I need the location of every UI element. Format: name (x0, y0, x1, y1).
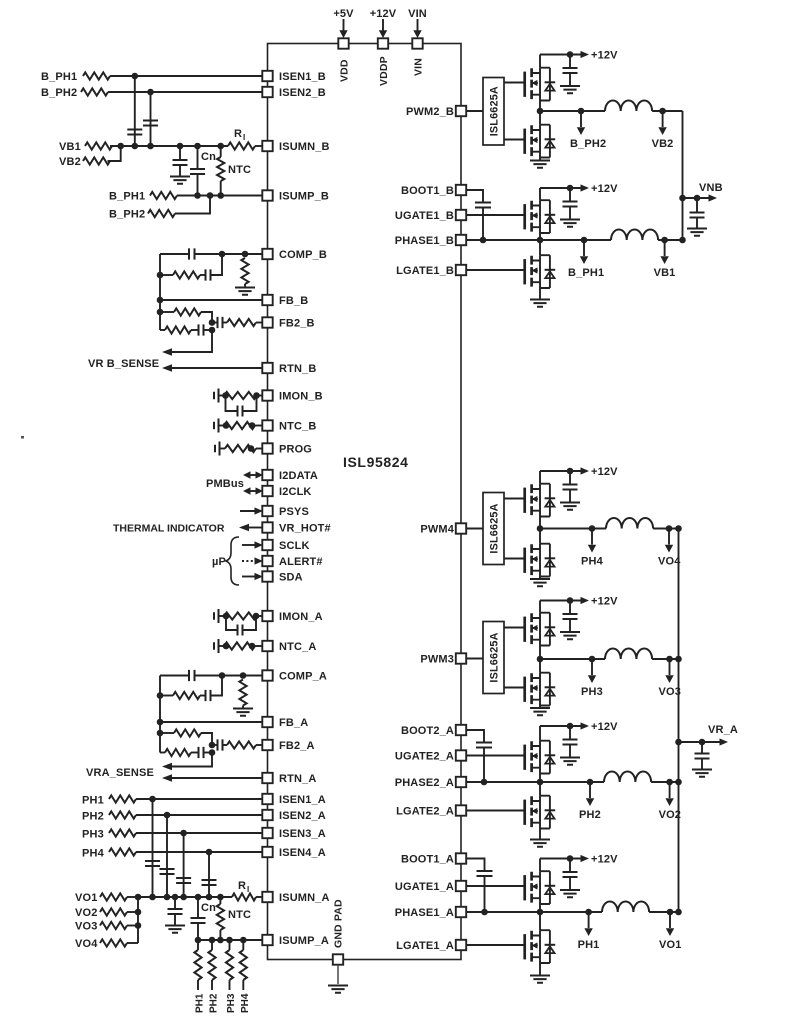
svg-text:B_PH2: B_PH2 (41, 87, 77, 99)
node VO1 tap (659, 909, 681, 951)
svg-text:UGATE2_A: UGATE2_A (395, 751, 454, 763)
svg-text:B_PH1: B_PH1 (109, 191, 145, 203)
ground lower source PWM3 (530, 706, 550, 716)
resistor VO4 (75, 938, 138, 950)
wire PSYS input arrow (240, 507, 263, 514)
node B_PH2 tap (570, 108, 606, 150)
node phase B1A (537, 909, 544, 916)
pin SDA (262, 571, 302, 583)
pin PROG (262, 443, 312, 455)
svg-text:PH3: PH3 (581, 686, 603, 698)
pin VDDP (378, 38, 390, 86)
svg-text:PWM3: PWM3 (420, 654, 454, 666)
capacitor on ISEN1 branch (127, 130, 142, 135)
capacitor PH1 branch (145, 861, 160, 866)
svg-text:PH3: PH3 (226, 993, 237, 1013)
resistor VB2 (59, 146, 121, 168)
pin ISEN1_A (262, 794, 326, 806)
svg-text:IMON_B: IMON_B (279, 391, 323, 403)
transistor Q lower PWM4 (525, 544, 556, 577)
node VR_A rail joints (675, 656, 682, 663)
wire VR_A rail (678, 529, 680, 913)
label uP with brace (212, 537, 239, 585)
wire PH2 branch down (166, 815, 168, 897)
wire VO merge rail (137, 897, 139, 943)
svg-text:VR_A: VR_A (708, 724, 738, 736)
wire upper gate PWM3 (504, 627, 525, 629)
pin PWM2_B (406, 106, 466, 118)
node PH2 tap (579, 779, 601, 821)
wire left rail (A comp) (159, 676, 161, 753)
svg-text:NTC: NTC (228, 909, 251, 921)
node VR_A tap (675, 724, 738, 746)
inductor B2A (604, 772, 651, 783)
wire PWM3 to driver (466, 658, 483, 660)
resistor VB1 (59, 141, 112, 153)
svg-text:RTN_B: RTN_B (279, 363, 316, 375)
svg-text:B_PH1: B_PH1 (41, 71, 77, 83)
pin RTN_B (262, 363, 316, 375)
resistor IMON_A with parallel capacitor (214, 609, 262, 636)
pin I2CLK (262, 486, 311, 498)
wire phase to lower drain PWM3 (539, 659, 541, 673)
pin UGATE1_B (395, 210, 466, 222)
capacitor ISUMN_A to ground (165, 894, 185, 933)
svg-text:R: R (234, 128, 242, 140)
ground lower source PWM2_B (530, 158, 550, 168)
resistor B_PH2 to ISUMP_B (109, 196, 210, 221)
resistor PH1 to ISEN (82, 795, 262, 807)
capacitor COMP_A series (189, 670, 195, 681)
node VIN supply (408, 8, 427, 38)
wire upper gate PWM4 (504, 498, 525, 500)
node junction ISEN1_B (132, 73, 139, 80)
svg-text:B_PH1: B_PH1 (568, 267, 604, 279)
transistor Q upper B1A (525, 871, 556, 904)
svg-text:PH3: PH3 (82, 829, 104, 841)
svg-text:ISL6625A: ISL6625A (489, 86, 501, 136)
svg-text:+12V: +12V (591, 50, 618, 62)
svg-text:RTN_A: RTN_A (279, 773, 316, 785)
wire left rail (B comp) (159, 254, 161, 330)
node phase PWM3 (537, 656, 544, 663)
pin VR_HOT# (262, 522, 330, 534)
wire ISEN2 branch down (150, 92, 152, 146)
resistor + capacitor FB_A lower branch (160, 747, 215, 758)
pin PHASE2_A (395, 777, 466, 789)
wire drain to +12V PWM2_B (539, 55, 541, 68)
resistor bottom PH3 (226, 940, 237, 1013)
capacitor +12V decoupling PWM2_B (560, 55, 580, 94)
svg-text:Cn: Cn (201, 902, 216, 914)
svg-text:LGATE1_B: LGATE1_B (396, 265, 454, 277)
wire UGATE B1A (466, 885, 525, 887)
svg-text:PH1: PH1 (195, 993, 206, 1013)
wire PH1 branch down (152, 799, 154, 897)
pin UGATE2_A (395, 750, 466, 762)
pin LGATE1_A (396, 940, 466, 952)
wire PWM2_B to driver (466, 110, 483, 112)
wire ISEN1 branch down (134, 76, 136, 146)
transistor Q lower B1B (525, 255, 556, 288)
wire ISUMN_B rail (110, 145, 228, 147)
resistor FB2_A upper (157, 729, 212, 745)
resistor VO3 (75, 921, 141, 933)
node VNB tap (679, 182, 722, 202)
svg-text:NTC: NTC (228, 164, 251, 176)
wire I2DATA bidirectional arrow (243, 471, 263, 479)
resistor COMP_B to ground (235, 251, 255, 295)
wire upper source to phase PWM2_B (539, 101, 541, 112)
wire upper source to phase PWM4 (539, 517, 541, 529)
resistor NTC_B (214, 419, 262, 433)
transistor Q lower PWM3 (525, 673, 556, 706)
node B_PH1 tap (568, 237, 604, 279)
svg-text:VNB: VNB (699, 182, 723, 194)
wire phase node PWM2_B (540, 110, 605, 112)
svg-text:VO4: VO4 (75, 938, 98, 950)
pin COMP_B (262, 249, 327, 261)
pin ISUMP_B (262, 190, 329, 202)
capacitor PH3 branch (176, 878, 191, 883)
wire inductor to rail PWM4 (653, 528, 678, 530)
svg-text:PH2: PH2 (82, 811, 104, 823)
ground lower source B2A (530, 829, 550, 847)
wire drain to +12V PWM3 (539, 601, 541, 613)
pin RTN_A (262, 773, 316, 785)
wire drain to +12V B1B (539, 188, 541, 200)
node ISUMP_A junctions (195, 937, 202, 944)
capacitor +12V decoupling PWM4 (560, 471, 580, 510)
wire phase node PWM4 (540, 528, 606, 530)
svg-text:I2DATA: I2DATA (279, 470, 318, 482)
wire PH3 branch down (183, 833, 185, 897)
svg-text:ISEN1_B: ISEN1_B (279, 71, 326, 83)
resistor PH3 to ISEN (82, 829, 262, 841)
wire PH4 branch down (208, 852, 210, 897)
svg-text:I2CLK: I2CLK (279, 486, 312, 498)
node PH3 tap (581, 656, 603, 698)
pin ISUMN_A (262, 892, 329, 904)
pin GND PAD (333, 899, 345, 965)
pin VIN (412, 38, 424, 76)
op-amp U_PWM4 driver ISL6625A (483, 493, 504, 565)
resistor RI to ISUMN_A (232, 880, 262, 901)
pin PSYS (262, 506, 309, 518)
resistor FB2 upper (157, 308, 212, 322)
resistor NTC (A) (217, 894, 251, 940)
resistor B_PH1 to ISEN1_B (41, 71, 262, 83)
svg-text:ISL6625A: ISL6625A (489, 632, 501, 682)
wire VRA_SENSE tap with arrow (162, 753, 212, 771)
svg-text:FB2_A: FB2_A (279, 740, 315, 752)
svg-text:NTC_B: NTC_B (279, 421, 316, 433)
svg-text:+12V: +12V (591, 183, 618, 195)
capacitor +12V decoupling B1A (560, 859, 580, 898)
svg-text:PWM2_B: PWM2_B (406, 106, 454, 118)
op-amp U_PWM2_B driver ISL6625A (483, 78, 504, 146)
transistor Q lower B1A (525, 930, 556, 963)
svg-text:SCLK: SCLK (279, 540, 310, 552)
wire phase to lower drain PWM2_B (539, 111, 541, 125)
svg-text:+12V: +12V (591, 596, 618, 608)
svg-text:Cn: Cn (201, 151, 216, 163)
capacitor on ISEN2 branch (143, 121, 158, 126)
wire drain to +12V PWM4 (539, 471, 541, 484)
pin ISEN2_A (262, 810, 326, 822)
resistor VO2 (75, 907, 141, 919)
wire inductor to rail PWM2_B (652, 110, 682, 112)
svg-text:FB_B: FB_B (279, 295, 308, 307)
svg-text:VR_HOT#: VR_HOT# (279, 523, 331, 535)
svg-text:VB1: VB1 (59, 141, 81, 153)
resistor NTC_A (214, 639, 262, 653)
pin NTC_B (262, 420, 316, 432)
node ISUMN_A junctions (135, 894, 142, 901)
svg-text:COMP_A: COMP_A (279, 671, 327, 683)
resistor IMON_B with parallel capacitor (214, 389, 262, 417)
svg-text:BOOT2_A: BOOT2_A (401, 725, 454, 737)
wire phase to lower drain B2A (539, 782, 541, 796)
pin PHASE1_A (395, 907, 466, 919)
pin ISEN4_A (262, 847, 326, 859)
wire upper source to phase B1A (539, 904, 541, 912)
svg-text:PH4: PH4 (82, 848, 105, 860)
wire upper source to phase B1B (539, 233, 541, 240)
node VB1 tap (654, 237, 676, 279)
capacitor Cn (B) (190, 143, 216, 196)
node +12V PWM2_B (540, 50, 618, 62)
svg-text:PH1: PH1 (82, 795, 104, 807)
svg-text:B_PH2: B_PH2 (570, 138, 606, 150)
capacitor Cn (A) (191, 894, 217, 940)
wire COMP_A row (160, 675, 189, 677)
wire LGATE B1B (466, 269, 525, 271)
svg-text:SDA: SDA (279, 572, 303, 584)
svg-text:PH2: PH2 (579, 809, 601, 821)
ground lower source B1B (530, 288, 550, 307)
capacitor +12V decoupling B1B (560, 188, 580, 227)
capacitor PH2 branch (160, 869, 175, 874)
svg-text:VDD: VDD (339, 59, 351, 82)
wire phase to lower drain B1A (539, 912, 541, 930)
wire VR_HOT# output arrow (239, 524, 262, 532)
svg-text:FB_A: FB_A (279, 717, 308, 729)
transistor Q upper PWM2_B (525, 68, 556, 101)
svg-text:R: R (238, 880, 246, 892)
node phase B1B (537, 237, 544, 244)
svg-text:ISEN4_A: ISEN4_A (279, 847, 326, 859)
wire I2CLK bidirectional arrow (243, 487, 263, 495)
node junction PH3 (180, 830, 187, 837)
wire ISUMN_A rail (138, 896, 232, 898)
node VO3 tap (659, 656, 681, 698)
svg-text:VRA_SENSE: VRA_SENSE (86, 767, 154, 779)
svg-text:µP: µP (212, 556, 226, 568)
capacitor bootstrap B1A (466, 859, 492, 916)
resistor PROG (215, 442, 262, 456)
svg-text:PH4: PH4 (581, 556, 604, 568)
node phase B2A (537, 779, 544, 786)
svg-text:VB2: VB2 (59, 156, 81, 168)
pin BOOT2_A (401, 725, 466, 737)
resistor + capacitor COMP_A lower branch (157, 672, 226, 701)
pin ISUMP_A (262, 935, 329, 947)
node +12V supply (370, 8, 397, 38)
resistor bottom PH2 (208, 940, 219, 1013)
svg-text:B_PH2: B_PH2 (109, 209, 145, 221)
ground lower source B1A (530, 963, 550, 983)
wire RTN_B with arrow (162, 364, 262, 372)
svg-text:PHASE1_A: PHASE1_A (395, 907, 454, 919)
svg-text:PHASE2_A: PHASE2_A (395, 777, 454, 789)
svg-text:UGATE1_A: UGATE1_A (395, 881, 454, 893)
svg-text:UGATE1_B: UGATE1_B (395, 210, 454, 222)
inductor PWM3 (605, 649, 652, 660)
wire SDA input arrow (242, 573, 263, 580)
svg-text:ISEN1_A: ISEN1_A (279, 794, 326, 806)
node VO4 tap (658, 525, 681, 567)
svg-text:THERMAL INDICATOR: THERMAL INDICATOR (113, 523, 225, 535)
transistor Q upper PWM3 (525, 613, 556, 646)
node +5V supply (333, 8, 354, 38)
svg-text:LGATE2_A: LGATE2_A (396, 806, 454, 818)
ground lower source PWM4 (530, 577, 550, 587)
wire LGATE B1A (466, 944, 525, 946)
wire phase to lower drain B1B (539, 240, 541, 255)
wire COMP_B row (160, 253, 189, 255)
node junction PH1 (149, 796, 156, 803)
svg-text:+12V: +12V (370, 8, 397, 20)
pin FB_B (262, 295, 308, 307)
pin ISEN3_A (262, 828, 326, 840)
svg-text:ISEN2_A: ISEN2_A (279, 810, 326, 822)
wire LGATE B2A (466, 810, 525, 812)
pin IMON_B (262, 390, 322, 402)
svg-text:BOOT1_B: BOOT1_B (401, 185, 454, 197)
resistor PH2 to ISEN (82, 811, 262, 823)
node +12V B2A (540, 721, 618, 733)
svg-text:VIN: VIN (408, 8, 427, 20)
svg-text:PH2: PH2 (209, 993, 220, 1013)
pin ISEN2_B (262, 87, 326, 99)
wire FB_B row (157, 297, 263, 304)
pin FB_A (262, 717, 308, 729)
resistor RI to ISUMN_B (228, 128, 262, 150)
wire inductor to rail B1A (649, 911, 678, 913)
svg-text:+12V: +12V (591, 854, 618, 866)
svg-text:VO1: VO1 (75, 892, 97, 904)
wire lower gate PWM4 (504, 558, 525, 560)
inductor B1A (602, 902, 649, 913)
wire VNB rail (682, 111, 684, 240)
resistor B_PH2 to ISEN2_B (41, 87, 262, 99)
inductor PWM2_B (605, 100, 652, 111)
wire PWM4 to driver (466, 528, 483, 530)
svg-text:ISEN2_B: ISEN2_B (279, 87, 326, 99)
svg-text:+12V: +12V (591, 721, 618, 733)
transistor Q upper B1B (525, 200, 556, 233)
node junction PH2 (164, 812, 171, 819)
pin SCLK (262, 540, 309, 552)
node +12V PWM4 (540, 466, 618, 478)
capacitor bootstrap B2A (466, 730, 492, 785)
op-amp U1 ISL95824 controller body (268, 44, 462, 960)
node junction PH4 (206, 849, 213, 856)
wire drain to +12V B1A (539, 859, 541, 872)
node phase PWM4 (537, 525, 544, 532)
pin FB2_A (262, 740, 314, 752)
inductor B1B (611, 230, 658, 241)
wire FB_A row (157, 719, 263, 726)
wire UGATE B1B (466, 214, 525, 216)
svg-text:I: I (247, 885, 249, 894)
pin I2DATA (262, 470, 318, 482)
svg-text:ALERT#: ALERT# (279, 556, 323, 568)
pin NTC_A (262, 641, 316, 653)
resistor + capacitor COMP_B lower branch (157, 251, 226, 281)
transistor Q upper PWM4 (525, 484, 556, 517)
pin VDD (338, 38, 350, 82)
node VB junction (117, 143, 124, 150)
transistor Q upper B2A (525, 741, 556, 774)
pin LGATE2_A (396, 805, 466, 817)
wire SCLK input arrow (242, 541, 263, 548)
wire stray mark (21, 436, 24, 439)
ground below GND PAD (328, 965, 348, 993)
capacitor VR_A (692, 742, 712, 777)
svg-text:ISUMP_A: ISUMP_A (279, 935, 329, 947)
svg-text:VO1: VO1 (659, 939, 681, 951)
svg-text:PSYS: PSYS (279, 506, 309, 518)
svg-text:+12V: +12V (591, 466, 618, 478)
wire ALERT# arrow (dashed) (242, 557, 263, 564)
svg-text:ISUMN_A: ISUMN_A (279, 892, 330, 904)
pin IMON_A (262, 611, 322, 623)
node VB2 tap (652, 108, 674, 150)
pin COMP_A (262, 670, 327, 682)
svg-text:VO3: VO3 (75, 921, 97, 933)
capacitor + resistor FB2_A series (209, 739, 263, 750)
wire phase node PWM3 (540, 658, 605, 660)
wire inductor to rail B1B (658, 239, 682, 241)
capacitor + resistor FB2_B series (209, 317, 263, 328)
wire upper gate PWM2_B (504, 82, 525, 84)
capacitor ISUMN_B to ground (170, 143, 190, 184)
svg-text:GND PAD: GND PAD (333, 899, 345, 948)
resistor PH4 to ISEN (82, 848, 262, 860)
node phase PWM2_B (537, 108, 544, 115)
resistor COMP_A to ground (233, 672, 253, 716)
svg-text:PH4: PH4 (240, 993, 251, 1013)
wire PHASE row B1A (466, 911, 602, 913)
capacitor +12V decoupling PWM3 (560, 601, 580, 640)
wire upper source to phase B2A (539, 774, 541, 783)
wire PHASE row B2A (466, 781, 604, 783)
node VNB rail joints (679, 237, 686, 244)
node PH1 tap (578, 909, 600, 951)
svg-text:FB2_B: FB2_B (279, 318, 315, 330)
pin FB2_B (262, 317, 314, 329)
wire lower gate PWM2_B (504, 139, 525, 141)
node +12V B1A (540, 854, 618, 866)
svg-text:ISUMP_B: ISUMP_B (279, 191, 329, 203)
svg-text:COMP_B: COMP_B (279, 249, 327, 261)
capacitor +12V decoupling B2A (560, 726, 580, 765)
pin ISUMN_B (262, 141, 329, 153)
svg-text:VB1: VB1 (654, 267, 676, 279)
svg-text:NTC_A: NTC_A (279, 641, 316, 653)
